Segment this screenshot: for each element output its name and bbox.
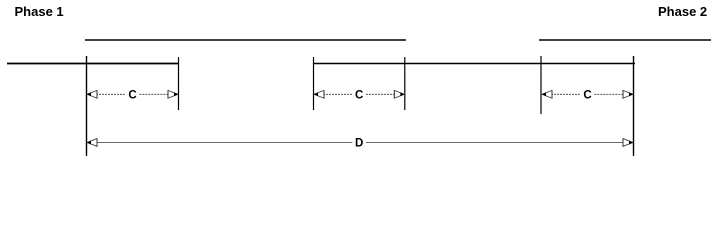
svg-text:D: D [355,138,363,150]
dimension D right arrowhead [623,138,633,147]
svg-text:Phase 2: Phase 2 [658,4,707,19]
svg-text:C: C [128,90,136,102]
dimension C1 right arrowhead [168,90,178,99]
dimension C2 left arrowhead [314,90,324,99]
dimension C2 shaft [323,93,395,95]
tick T1 (x=86, long) [86,56,88,156]
dimension C3 shaft [551,93,624,95]
dimension C3 left arrowhead [542,90,552,99]
dimension C1 left arrowhead [87,90,97,99]
dimension C1 shaft [96,93,169,95]
wire: phase 2 overbar [539,39,711,41]
svg-text:C: C [355,90,363,102]
tick T5 (x=541) [540,56,542,114]
tick T6 (x=634, long) [633,56,635,156]
svg-text:Phase 1: Phase 1 [15,4,64,19]
wire: baseline segment 1 [7,63,178,65]
wire: baseline segment 2 [313,63,635,65]
dimension C3 right arrowhead [623,90,633,99]
tick T4 (x=405) [404,57,406,110]
dimension D shaft [96,142,624,144]
wire: phase 1 overbar [85,39,406,41]
tick T2 (x=178) [178,57,180,110]
dimension C2 right arrowhead [394,90,404,99]
tick T3 (x=313) [313,57,315,110]
svg-text:C: C [583,90,591,102]
dimension D left arrowhead [87,138,97,147]
